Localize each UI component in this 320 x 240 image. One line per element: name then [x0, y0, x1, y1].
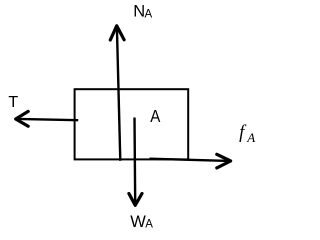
svg-text:A: A	[145, 8, 153, 20]
svg-text:A: A	[145, 219, 153, 231]
svg-text:A: A	[246, 130, 255, 145]
svg-text:W: W	[130, 213, 146, 231]
svg-text:T: T	[8, 94, 18, 111]
svg-text:N: N	[133, 2, 145, 20]
svg-text:A: A	[150, 106, 161, 127]
